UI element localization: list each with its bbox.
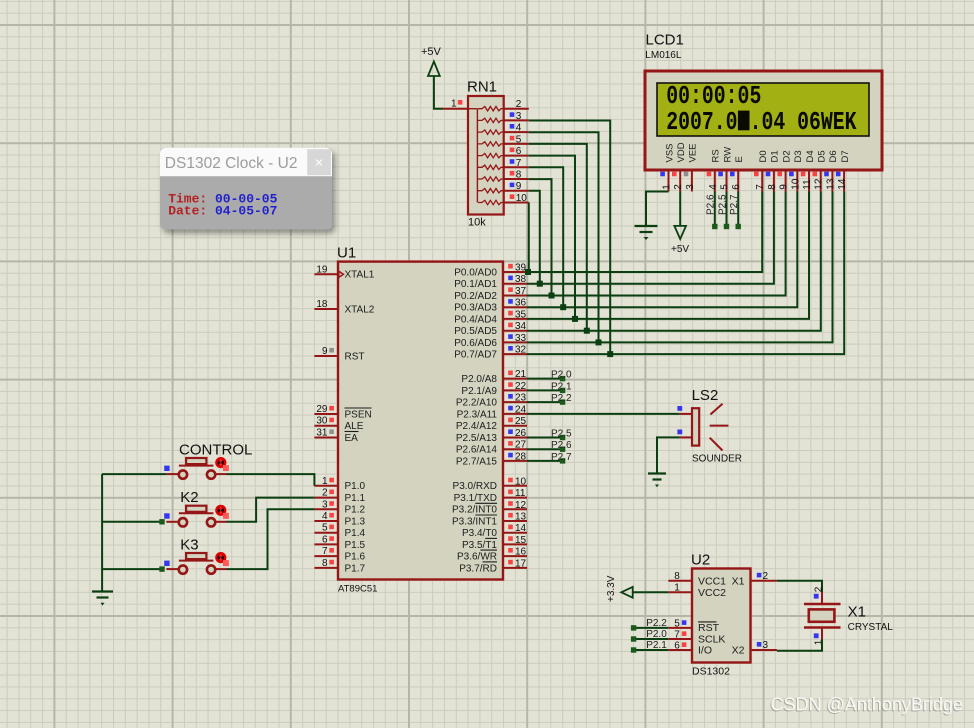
- svg-text:+3.3V: +3.3V: [606, 575, 617, 602]
- svg-text:P3.4/T0: P3.4/T0: [462, 528, 497, 539]
- svg-text:6: 6: [516, 146, 522, 157]
- wire U1 to terminal P2.6: [527, 448, 565, 450]
- svg-text:P2.7/A15: P2.7/A15: [456, 456, 498, 467]
- svg-text:6: 6: [674, 641, 680, 652]
- svg-text:P2.5: P2.5: [551, 429, 572, 440]
- ground (LCD VSS): [635, 225, 658, 227]
- svg-text:10: 10: [515, 476, 527, 487]
- svg-text:P1.5: P1.5: [345, 540, 366, 551]
- svg-text:3: 3: [322, 499, 328, 510]
- svg-text:D3: D3: [793, 150, 804, 162]
- svg-text:11: 11: [802, 179, 813, 190]
- svg-text:21: 21: [515, 369, 527, 380]
- U1 pin 30 ALE: [314, 425, 338, 427]
- svg-text:P2.2/A10: P2.2/A10: [456, 398, 498, 409]
- U2 pin 5 RST: [668, 627, 692, 629]
- U1 pin 9 RST: [314, 355, 338, 357]
- U2 pin 3 X2: [751, 649, 777, 651]
- svg-text:2: 2: [516, 99, 522, 110]
- svg-text:P1.3: P1.3: [345, 516, 366, 527]
- svg-text:D0: D0: [758, 150, 769, 162]
- svg-text:34: 34: [515, 321, 527, 332]
- LCD pin 5 RW: [726, 170, 728, 192]
- svg-text:38: 38: [515, 274, 527, 285]
- svg-text:P1.7: P1.7: [345, 563, 366, 574]
- wire U1 P2.3 to LS2: [527, 413, 680, 415]
- svg-text:P3.2/INT0: P3.2/INT0: [452, 505, 497, 516]
- svg-text:XTAL1: XTAL1: [345, 270, 375, 281]
- svg-text:VCC2: VCC2: [698, 587, 726, 599]
- wire RN1 pin 6 to P0.4 net: [529, 156, 575, 319]
- wire LS2 to ground: [657, 437, 680, 473]
- svg-text:1: 1: [674, 583, 680, 594]
- svg-text:12: 12: [814, 178, 825, 190]
- U1 pin 28 P2.7/A15: [503, 460, 527, 462]
- U1 pin 37 P0.2/AD2: [503, 295, 527, 297]
- wire RN1 pin 9 to P0.1 net: [529, 191, 540, 284]
- LCD pin 11 D4: [808, 170, 810, 192]
- U1 pin 39 P0.0/AD0: [503, 271, 527, 273]
- wire RN1 pin 10 to P0.0 net: [528, 203, 530, 273]
- junction P0.7: [607, 351, 613, 357]
- U1 pin 8 P1.7: [314, 567, 338, 569]
- U1 pin 18 XTAL2: [314, 308, 338, 310]
- svg-text:13: 13: [825, 178, 836, 190]
- svg-text:×: ×: [315, 155, 324, 172]
- junction P0.0: [525, 269, 531, 275]
- svg-text:EA: EA: [345, 433, 359, 444]
- svg-text:5: 5: [720, 184, 731, 190]
- svg-text:D2: D2: [781, 150, 792, 162]
- svg-text:1: 1: [322, 476, 328, 487]
- svg-text:2: 2: [813, 586, 824, 592]
- svg-text:D7: D7: [840, 150, 851, 162]
- wire LCD pin to terminal P2.6: [714, 192, 716, 227]
- svg-text:17: 17: [515, 558, 527, 569]
- crystal pin 2 marks: [814, 594, 819, 599]
- svg-text:P2.2: P2.2: [551, 393, 572, 404]
- svg-text:P2.1/A9: P2.1/A9: [461, 386, 497, 397]
- svg-text:14: 14: [515, 523, 527, 534]
- svg-text:PSEN: PSEN: [345, 409, 372, 420]
- U2 pin 1 VCC2: [668, 591, 692, 593]
- wire terminal P2.2 to U2: [632, 627, 669, 629]
- junction P0.3: [560, 304, 566, 310]
- svg-text:X1: X1: [848, 604, 866, 621]
- svg-text:P2.6/A14: P2.6/A14: [456, 445, 498, 456]
- svg-text:4: 4: [322, 511, 328, 522]
- svg-text:P2.0: P2.0: [551, 370, 572, 381]
- U2 pin 8 VCC1: [668, 580, 692, 582]
- LCD pin 12 D5: [820, 170, 822, 192]
- svg-text:P2.6: P2.6: [706, 194, 717, 215]
- U1 pin 23 P2.2/A10: [503, 401, 527, 403]
- wire rail to K3: [102, 568, 164, 570]
- U1 pin 5 P1.4: [314, 532, 338, 534]
- svg-text:U2: U2: [691, 552, 710, 569]
- svg-text:LM016L: LM016L: [645, 50, 682, 61]
- LCD pin 3 VEE: [691, 170, 693, 192]
- U1 pin 19 XTAL1: [314, 273, 338, 275]
- svg-text:2: 2: [763, 571, 769, 582]
- svg-text:P0.4/AD4: P0.4/AD4: [454, 314, 497, 325]
- svg-text:2: 2: [673, 184, 684, 190]
- svg-text:4: 4: [516, 123, 522, 134]
- U1 pin 22 P2.1/A9: [503, 389, 527, 391]
- U1 pin 21 P2.0/A8: [503, 378, 527, 380]
- power +5V (top): [428, 62, 440, 77]
- svg-text:P2.0: P2.0: [646, 629, 667, 640]
- U1 pin 31 EA: [314, 437, 338, 439]
- wire RN1 pin 3 to P0.7 net: [529, 121, 610, 355]
- LCD pin 9 D2: [785, 170, 787, 192]
- U2 pin 6 I/O: [668, 649, 692, 651]
- svg-text:RST: RST: [345, 351, 365, 362]
- svg-text:10: 10: [516, 193, 528, 204]
- U1 pin 6 P1.5: [314, 543, 338, 545]
- U1 pin 35 P0.4/AD4: [503, 318, 527, 320]
- svg-text:P0.1/AD1: P0.1/AD1: [454, 279, 497, 290]
- svg-text:P0.6/AD6: P0.6/AD6: [454, 338, 497, 349]
- wire P0.6 to LCD D6: [527, 192, 833, 343]
- svg-text:15: 15: [515, 535, 527, 546]
- svg-text:P0.5/AD5: P0.5/AD5: [454, 326, 497, 337]
- svg-text:29: 29: [316, 404, 328, 415]
- U1 pin 15 P3.5/T1: [503, 543, 527, 545]
- wire P0.5 to LCD D5: [527, 192, 821, 331]
- wire U1 to terminal P2.5: [527, 437, 565, 439]
- dialog DS1302 Clock - U2: [160, 148, 332, 230]
- wire K3 to U1 P1.2: [227, 509, 315, 569]
- svg-text:12: 12: [515, 500, 527, 511]
- svg-text:16: 16: [515, 547, 527, 558]
- RN1 pin 5: [504, 143, 529, 145]
- U1 pin 4 P1.3: [314, 520, 338, 522]
- svg-text:35: 35: [515, 309, 527, 320]
- svg-text:P1.2: P1.2: [345, 505, 366, 516]
- svg-text:11: 11: [515, 488, 526, 499]
- svg-text:SOUNDER: SOUNDER: [692, 454, 742, 465]
- RN1 pin 9: [504, 190, 529, 192]
- U1 pin 34 P0.5/AD5: [503, 330, 527, 332]
- svg-text:VSS: VSS: [664, 143, 675, 162]
- U1 pin 25 P2.4/A12: [503, 425, 527, 427]
- U1 pin 24 P2.3/A11: [503, 413, 527, 415]
- U1 pin 11 P3.1/TXD: [503, 497, 527, 499]
- wire U2 X1 to crystal: [777, 581, 822, 592]
- svg-text:18: 18: [316, 299, 328, 310]
- svg-text:K2: K2: [180, 489, 198, 506]
- wire left rail: [101, 474, 103, 591]
- svg-text:ALE: ALE: [345, 421, 364, 432]
- wire terminal P2.0 to U2: [632, 638, 669, 640]
- LCD cursor block: [738, 111, 750, 131]
- svg-text:P2.6: P2.6: [551, 440, 572, 451]
- svg-text:2: 2: [322, 488, 328, 499]
- svg-text:37: 37: [515, 286, 527, 297]
- LCD pin 4 RS: [714, 170, 716, 192]
- svg-text:P3.5/T1: P3.5/T1: [462, 540, 497, 551]
- svg-text:6: 6: [731, 184, 742, 190]
- U2 pin 7 SCLK: [668, 638, 692, 640]
- svg-text:P1.6: P1.6: [345, 552, 366, 563]
- wire RN1 pin 7 to P0.3 net: [529, 167, 563, 307]
- svg-text:P0.7/AD7: P0.7/AD7: [454, 350, 497, 361]
- U1 pin 12 P3.2/INT0: [503, 508, 527, 510]
- svg-text:30: 30: [316, 416, 328, 427]
- svg-text:RN1: RN1: [467, 79, 497, 96]
- svg-text:.04 06WEK: .04 06WEK: [750, 108, 857, 137]
- svg-text:00:00:05: 00:00:05: [666, 82, 761, 111]
- svg-text:X2: X2: [732, 644, 745, 656]
- svg-text:3: 3: [516, 111, 522, 122]
- wire crystal to U2 X2: [777, 640, 822, 651]
- LCD pin 10 D3: [796, 170, 798, 192]
- RN1 pin 10: [504, 202, 529, 204]
- U1 pin 7 P1.6: [314, 555, 338, 557]
- wire LCD VDD to +5V: [679, 192, 681, 226]
- svg-text:X1: X1: [732, 576, 745, 588]
- svg-text:RS: RS: [711, 149, 722, 162]
- svg-text:7: 7: [516, 158, 522, 169]
- wire U1 to terminal P2.0: [527, 378, 565, 380]
- svg-text:7: 7: [755, 184, 766, 190]
- wire terminal P2.1 to U2: [632, 649, 669, 651]
- crystal pin 1 marks: [814, 633, 819, 638]
- U2 pin 2 X1: [751, 580, 777, 582]
- svg-text:14: 14: [837, 178, 848, 190]
- XTAL1 clock arrow: [339, 271, 344, 277]
- LCD pin 2 VDD: [679, 170, 681, 192]
- svg-text:P0.0/AD0: P0.0/AD0: [454, 267, 497, 278]
- RN1 pin 2: [504, 108, 529, 110]
- svg-text:4: 4: [708, 184, 719, 190]
- svg-text:1: 1: [451, 99, 457, 110]
- svg-text:P3.6/WR: P3.6/WR: [457, 552, 497, 563]
- svg-text:8: 8: [674, 571, 680, 582]
- svg-text:P1.0: P1.0: [345, 481, 366, 492]
- svg-text:P2.1: P2.1: [551, 381, 572, 392]
- svg-text:10: 10: [790, 178, 801, 190]
- RN1 pin 7: [504, 166, 529, 168]
- svg-text:36: 36: [515, 298, 527, 309]
- svg-text:VDD: VDD: [676, 142, 687, 162]
- power +3.3V: [633, 591, 669, 593]
- svg-text:3: 3: [685, 184, 696, 190]
- svg-text:P3.1/TXD: P3.1/TXD: [454, 493, 497, 504]
- U1 pin 29 PSEN: [314, 413, 338, 415]
- RN1 pin 6: [504, 155, 529, 157]
- svg-text:P1.4: P1.4: [345, 528, 366, 539]
- power +5V (below LCD): [674, 226, 686, 239]
- wire LCD pin to terminal P2.5: [726, 192, 728, 227]
- U1 pin 16 P3.6/WR: [503, 555, 527, 557]
- wire LCD VSS to ground: [646, 192, 669, 227]
- wire RN1 pin 8 to P0.2 net: [529, 179, 552, 295]
- svg-text:33: 33: [515, 333, 527, 344]
- U1 pin 10 P3.0/RXD: [503, 485, 527, 487]
- svg-text:8: 8: [516, 170, 522, 181]
- wire U1 to terminal P2.7: [527, 460, 565, 462]
- U1 pin 33 P0.6/AD6: [503, 341, 527, 343]
- svg-text:7: 7: [322, 546, 328, 557]
- svg-text:P2.7: P2.7: [551, 452, 572, 463]
- svg-text:LS2: LS2: [692, 387, 719, 404]
- svg-text:9: 9: [516, 181, 522, 192]
- wire RN1 pin 4 to P0.6 net: [529, 132, 599, 342]
- wire P0.2 to LCD D2: [527, 192, 786, 296]
- svg-text:+5V: +5V: [421, 46, 442, 58]
- wire K2 to U1 P1.1: [227, 498, 315, 522]
- junction P0.1: [537, 281, 543, 287]
- svg-text:25: 25: [515, 416, 527, 427]
- wire U1 to terminal P2.2: [527, 401, 565, 403]
- svg-text:P2.2: P2.2: [646, 618, 667, 629]
- svg-text:CRYSTAL: CRYSTAL: [848, 622, 894, 633]
- svg-text:D4: D4: [805, 150, 816, 162]
- svg-text:P2.3/A11: P2.3/A11: [457, 409, 498, 420]
- svg-text:1: 1: [662, 184, 673, 190]
- U1 pin 32 P0.7/AD7: [503, 353, 527, 355]
- LCD pin 13 D6: [831, 170, 833, 192]
- LCD pin 8 D1: [773, 170, 775, 192]
- svg-text:CONTROL: CONTROL: [179, 442, 252, 459]
- U1 pin 3 P1.2: [314, 508, 338, 510]
- svg-text:19: 19: [316, 264, 328, 275]
- svg-text:P3.7/RD: P3.7/RD: [459, 563, 497, 574]
- svg-text:8: 8: [322, 558, 328, 569]
- svg-text:+5V: +5V: [671, 244, 689, 255]
- svg-text:9: 9: [322, 346, 328, 357]
- wire CONTROL to U1 P1.0: [227, 474, 315, 486]
- svg-text:27: 27: [515, 440, 527, 451]
- junction P0.6: [596, 339, 602, 345]
- svg-text:I/O: I/O: [698, 644, 712, 656]
- svg-text:P2.5: P2.5: [717, 194, 728, 215]
- svg-text:8: 8: [767, 184, 778, 190]
- svg-text:Date:: Date:: [168, 203, 207, 218]
- resistor network RN1: [468, 96, 504, 215]
- U1 pin 17 P3.7/RD: [503, 567, 527, 569]
- svg-text:7: 7: [674, 630, 680, 641]
- svg-text:04-05-07: 04-05-07: [215, 203, 277, 218]
- svg-text:23: 23: [515, 393, 527, 404]
- LCD pin 6 E: [737, 170, 739, 192]
- svg-text:22: 22: [515, 381, 527, 392]
- svg-text:P2.7: P2.7: [729, 194, 740, 215]
- U1 pin 1 P1.0: [314, 485, 338, 487]
- svg-text:3: 3: [763, 640, 769, 651]
- U1 pin 2 P1.1: [314, 497, 338, 499]
- svg-text:5: 5: [322, 523, 328, 534]
- svg-text:P0.3/AD3: P0.3/AD3: [454, 303, 497, 314]
- svg-text:XTAL2: XTAL2: [345, 304, 375, 315]
- junction P0.2: [549, 293, 555, 299]
- svg-text:P3.3/INT1: P3.3/INT1: [452, 516, 497, 527]
- svg-text:9: 9: [779, 184, 790, 190]
- svg-text:5: 5: [516, 134, 522, 145]
- svg-text:2007.0: 2007.0: [666, 108, 737, 137]
- U1 pin 14 P3.4/T0: [503, 532, 527, 534]
- wire P0.1 to LCD D1: [527, 192, 774, 284]
- svg-text:RW: RW: [722, 147, 733, 163]
- wire rail to K2: [102, 521, 164, 523]
- svg-text:6: 6: [322, 534, 328, 545]
- LCD screen: [657, 83, 869, 136]
- svg-text:D6: D6: [828, 150, 839, 162]
- wire U1 to terminal P2.1: [527, 389, 565, 391]
- svg-text:D5: D5: [817, 150, 828, 162]
- RN1 pin 1: [443, 108, 468, 110]
- U1 pin 38 P0.1/AD1: [503, 283, 527, 285]
- LCD pin 14 D7: [843, 170, 845, 192]
- LCD pin 1 VSS: [668, 170, 670, 192]
- svg-text:U1: U1: [337, 245, 356, 262]
- svg-text:10k: 10k: [468, 217, 486, 229]
- svg-text:32: 32: [515, 345, 527, 356]
- svg-text:D1: D1: [770, 150, 781, 162]
- svg-text:DS1302: DS1302: [692, 666, 730, 678]
- svg-text:K3: K3: [180, 537, 198, 554]
- U1 pin 26 P2.5/A13: [503, 437, 527, 439]
- svg-text:RST: RST: [698, 622, 720, 634]
- svg-text:VEE: VEE: [688, 143, 699, 162]
- ground (LS2): [648, 472, 666, 474]
- junction P0.4: [572, 316, 578, 322]
- wire RN1 pin 5 to P0.5 net: [529, 144, 587, 331]
- svg-text:31: 31: [316, 428, 328, 439]
- RN1 pin 8: [504, 178, 529, 180]
- svg-text:5: 5: [674, 619, 680, 630]
- svg-text:P2.5/A13: P2.5/A13: [456, 433, 498, 444]
- wire P0.0 to LCD D0: [527, 192, 762, 273]
- wire P0.4 to LCD D4: [527, 192, 809, 319]
- RN1 pin 3: [504, 119, 529, 121]
- svg-text:P0.2/AD2: P0.2/AD2: [454, 291, 497, 302]
- svg-text:28: 28: [515, 451, 527, 462]
- wire LCD pin to terminal P2.7: [737, 192, 739, 227]
- RN1 pin 4: [504, 131, 529, 133]
- svg-text:39: 39: [515, 263, 527, 274]
- svg-text:VCC1: VCC1: [698, 576, 726, 588]
- svg-text:24: 24: [515, 404, 527, 415]
- svg-text:DS1302 Clock - U2: DS1302 Clock - U2: [165, 155, 298, 172]
- U1 pin 27 P2.6/A14: [503, 448, 527, 450]
- svg-text:P3.0/RXD: P3.0/RXD: [453, 481, 497, 492]
- wire P0.3 to LCD D3: [527, 192, 797, 308]
- ground (buttons): [92, 590, 113, 592]
- wire rail to CONTROL: [102, 473, 166, 475]
- U1 pin 13 P3.3/INT1: [503, 520, 527, 522]
- junction P0.5: [584, 328, 590, 334]
- svg-text:13: 13: [515, 512, 527, 523]
- svg-text:P2.0/A8: P2.0/A8: [461, 374, 497, 385]
- LCD pin 7 D0: [761, 170, 763, 192]
- wire +5V to RN1 pin 1: [434, 76, 443, 109]
- U1 pin 36 P0.3/AD3: [503, 306, 527, 308]
- svg-text:E: E: [734, 156, 745, 162]
- wire P0.7 to LCD D7: [527, 192, 844, 355]
- svg-text:CSDN @AnthonyBridge: CSDN @AnthonyBridge: [771, 695, 963, 715]
- svg-text:AT89C51: AT89C51: [338, 584, 377, 595]
- svg-text:P1.1: P1.1: [345, 493, 366, 504]
- svg-text:LCD1: LCD1: [646, 32, 684, 49]
- svg-text:P2.4/A12: P2.4/A12: [456, 421, 498, 432]
- svg-text:P2.1: P2.1: [646, 640, 667, 651]
- svg-text:26: 26: [515, 428, 527, 439]
